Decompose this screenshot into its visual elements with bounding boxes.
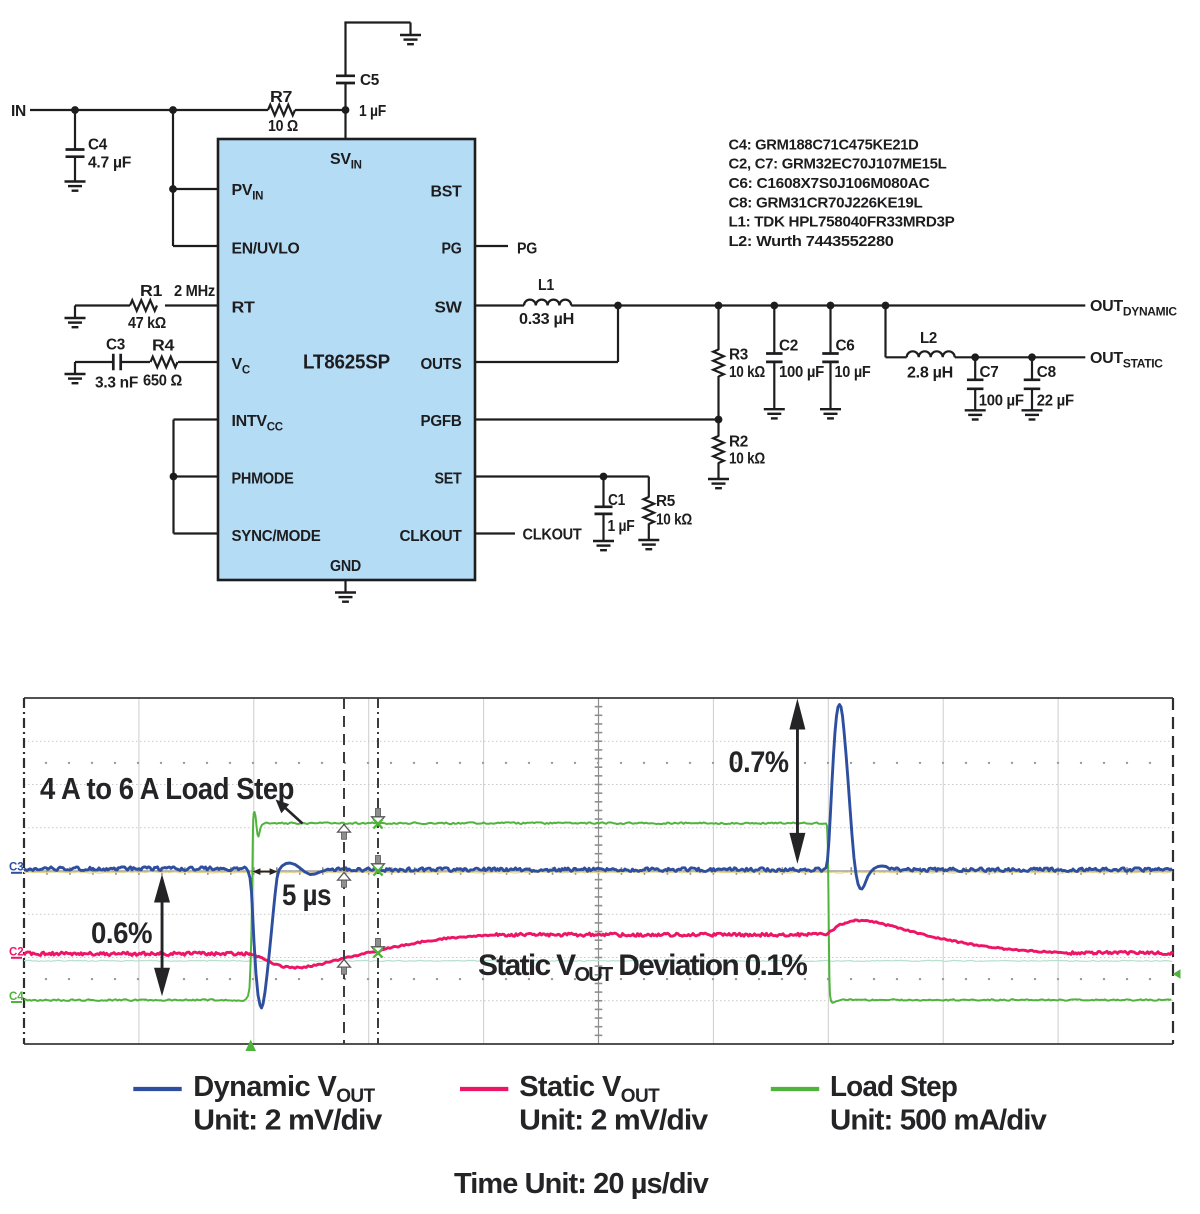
ground at C6 (820, 409, 841, 418)
pin PGFB (421, 413, 462, 430)
svg-text:R1: R1 (140, 283, 162, 300)
svg-text:EN/UVLO: EN/UVLO (232, 241, 300, 258)
wire OUT static rail (955, 356, 1086, 358)
svg-text:BST: BST (431, 184, 463, 201)
svg-text:OUTS: OUTS (421, 356, 463, 373)
wire L1 to OUT rail (571, 304, 1085, 306)
svg-text:PHMODE: PHMODE (232, 471, 295, 488)
inductor L2 (907, 330, 955, 382)
svg-text:PGFB: PGFB (421, 413, 462, 430)
scope minor dot rows (45, 762, 1151, 981)
svg-text:10 kΩ: 10 kΩ (729, 451, 765, 468)
svg-text:2.8 µH: 2.8 µH (907, 365, 953, 382)
svg-text:0.7%: 0.7% (729, 746, 789, 779)
svg-text:C4: C4 (88, 137, 107, 154)
scope grid verticals (139, 698, 1058, 1044)
pin SET (435, 471, 462, 488)
node IN label (11, 103, 26, 120)
svg-text:2 MHz: 2 MHz (174, 283, 215, 300)
svg-text:SET: SET (435, 471, 462, 488)
wire PGFB (475, 418, 719, 420)
svg-text:Unit: 2 mV/div: Unit: 2 mV/div (193, 1105, 382, 1137)
svg-text:100 µF: 100 µF (979, 393, 1024, 410)
ground above right of C5 (400, 35, 421, 44)
junction C7 tap (971, 353, 979, 361)
junction SVIN node (342, 103, 387, 120)
svg-text:RT: RT (232, 300, 256, 317)
junction C8 tap (1028, 353, 1036, 361)
svg-text:CLKOUT: CLKOUT (400, 528, 463, 545)
svg-text:R4: R4 (152, 338, 174, 355)
pin EN/UVLO (232, 241, 300, 258)
svg-text:650 Ω: 650 Ω (143, 373, 182, 390)
node PG label (517, 241, 537, 258)
junction R3 tap (715, 302, 723, 310)
pin INTVCC (232, 413, 283, 434)
svg-text:1 µF: 1 µF (608, 518, 635, 535)
scope center vertical axis (595, 698, 603, 1044)
svg-text:5 µs: 5 µs (282, 879, 331, 912)
ground below IC (335, 593, 356, 602)
capacitor C4 (66, 110, 132, 182)
cursor marker down green (372, 809, 385, 825)
svg-text:GND: GND (330, 558, 361, 575)
node OUTSTATIC label (1090, 350, 1163, 371)
svg-text:R7: R7 (270, 89, 292, 106)
ground at R1 (65, 306, 86, 328)
svg-text:10 Ω: 10 Ω (268, 118, 298, 135)
cursor marker down blue (372, 856, 385, 872)
node OUTDYNAMIC label (1090, 298, 1177, 319)
channel label C3 (9, 862, 24, 874)
svg-text:C4: GRM188C71C475KE21D: C4: GRM188C71C475KE21D (729, 136, 919, 153)
wire OUTS sense (475, 306, 618, 363)
ground at R5 (638, 540, 659, 549)
svg-text:PG: PG (442, 241, 462, 258)
pin RT (232, 300, 256, 317)
svg-text:10 kΩ: 10 kΩ (656, 512, 692, 529)
cursor dash-dot (377, 698, 379, 1044)
svg-text:C1: C1 (608, 492, 625, 509)
svg-text:1 µF: 1 µF (359, 103, 386, 120)
node CLKOUT label (523, 527, 582, 544)
svg-text:CLKOUT: CLKOUT (523, 527, 582, 544)
inductor L1 (519, 277, 574, 328)
pin BST (431, 184, 463, 201)
cursor marker up green (338, 825, 351, 840)
ground at C2 (764, 409, 785, 418)
ground at C1 (593, 541, 614, 550)
junction L2 branch (882, 302, 890, 310)
wire CLKOUT (475, 532, 515, 534)
junction at C4 tap (71, 106, 79, 114)
svg-text:Load Step: Load Step (830, 1071, 957, 1103)
capacitor C2 (766, 306, 824, 410)
svg-text:SW: SW (435, 300, 463, 317)
svg-text:C6: C6 (836, 338, 855, 355)
svg-text:Static VOUT Deviation 0.1%: Static VOUT Deviation 0.1% (478, 949, 807, 986)
svg-text:R2: R2 (729, 434, 748, 451)
wire SW to L1 (475, 304, 524, 306)
trace aux yellow (24, 872, 1172, 873)
trigger time marker (245, 1040, 256, 1052)
svg-text:L1: L1 (538, 277, 554, 294)
resistor R7 (268, 89, 298, 135)
junction SW/OUTS node (614, 302, 622, 310)
trace dynamic vout blue (24, 705, 1172, 1009)
trace load step green (24, 812, 1171, 1003)
resistor R3 (713, 306, 765, 420)
svg-text:C2: C2 (9, 947, 24, 959)
wire L2 branch (886, 306, 907, 358)
resistor R5 (644, 477, 693, 541)
capacitor C5 (336, 23, 379, 111)
svg-text:R3: R3 (729, 347, 748, 364)
svg-text:10 kΩ: 10 kΩ (729, 364, 765, 381)
svg-text:100 µF: 100 µF (779, 364, 824, 381)
svg-text:R5: R5 (656, 493, 675, 510)
svg-text:C2: C2 (779, 338, 798, 355)
wire IN rail (30, 109, 346, 111)
ground below C4 (65, 182, 86, 191)
trigger level marker (1173, 969, 1181, 978)
op-amp U1 LT8625SP IC body (218, 139, 475, 580)
capacitor C7 (967, 357, 1024, 410)
wire C5 to ground (344, 23, 410, 36)
svg-text:C3: C3 (9, 862, 24, 874)
svg-text:SYNC/MODE: SYNC/MODE (232, 528, 322, 545)
svg-text:C2, C7: GRM32EC70J107ME15L: C2, C7: GRM32EC70J107ME15L (729, 156, 947, 173)
svg-text:47 kΩ: 47 kΩ (128, 315, 166, 332)
junction PVIN (169, 185, 177, 193)
ground at R2 (708, 479, 729, 488)
pin PG (442, 241, 462, 258)
annotation 5us arrow (253, 868, 278, 875)
svg-text:L2: L2 (920, 330, 937, 347)
capacitor C8 (1024, 357, 1075, 410)
trace aux teal (24, 960, 1172, 961)
pin OUTS (421, 356, 463, 373)
svg-text:C8: C8 (1037, 364, 1056, 381)
cursor marker down pink (372, 939, 385, 955)
scope border (24, 698, 1173, 1044)
wire SVIN pin (344, 110, 346, 139)
wire PVIN branch (173, 110, 218, 246)
junction C6 tap (827, 302, 835, 310)
annotation 0.7% arrow (789, 699, 805, 864)
annotation load step arrow (276, 800, 303, 824)
cursor marker up blue (338, 873, 351, 888)
svg-text:3.3 nF: 3.3 nF (95, 375, 139, 392)
svg-text:L1: TDK HPL758040FR33MRD3P: L1: TDK HPL758040FR33MRD3P (729, 214, 955, 231)
svg-text:C3: C3 (106, 337, 125, 354)
capacitor C6 (822, 306, 871, 410)
ground at C3 (65, 362, 86, 383)
legend dynamic swatch (133, 1087, 181, 1091)
wire GND pin (344, 580, 346, 593)
capacitor C1 (595, 477, 635, 542)
channel label C4 (9, 991, 24, 1003)
cursor marker up pink (338, 960, 351, 975)
resistor R1 (75, 283, 218, 332)
trace static vout pink (24, 920, 1173, 968)
cursor dashed (343, 698, 345, 1044)
svg-text:C5: C5 (360, 72, 379, 89)
svg-text:10 µF: 10 µF (835, 364, 871, 381)
legend static swatch (460, 1087, 508, 1091)
resistor R2 (713, 420, 765, 480)
junction at PVIN tap (169, 106, 177, 114)
svg-text:4.7 µF: 4.7 µF (88, 155, 132, 172)
svg-text:C8: GRM31CR70J226KE19L: C8: GRM31CR70J226KE19L (729, 194, 923, 211)
scope center horizontal axis (24, 867, 1173, 875)
ground at C8 (1022, 410, 1043, 419)
svg-text:Unit: 2 mV/div: Unit: 2 mV/div (519, 1105, 708, 1137)
svg-text:0.6%: 0.6% (91, 917, 152, 950)
svg-text:4 A to 6 A Load Step: 4 A to 6 A Load Step (40, 771, 294, 806)
junction PHMODE (170, 473, 178, 481)
wire INTVCC/PHMODE/SYNC strap (174, 420, 219, 534)
svg-text:22 µF: 22 µF (1037, 393, 1074, 410)
svg-text:IN: IN (11, 103, 26, 120)
pin CLKOUT inside (400, 528, 463, 545)
wire PG output (475, 245, 508, 247)
pin VC (232, 356, 250, 377)
pin GND (330, 558, 361, 575)
junction C1 tap (600, 473, 608, 481)
parts list (729, 136, 955, 250)
svg-text:0.33 µH: 0.33 µH (519, 311, 574, 328)
scope grid horizontals (24, 741, 1173, 1001)
pin SW (435, 300, 463, 317)
capacitor C3 (75, 337, 139, 392)
svg-text:C7: C7 (980, 364, 999, 381)
junction C2 tap (770, 302, 778, 310)
pin PHMODE (232, 471, 295, 488)
annotation 0.6% arrow (154, 874, 170, 996)
wire SET (475, 475, 649, 477)
ground at C7 (965, 410, 986, 419)
channel label C2 (9, 947, 24, 959)
svg-text:LT8625SP: LT8625SP (303, 352, 390, 374)
legend loadstep swatch (771, 1087, 819, 1091)
svg-text:Unit: 500 mA/div: Unit: 500 mA/div (830, 1105, 1047, 1137)
svg-text:L2: Wurth 7443552280: L2: Wurth 7443552280 (729, 233, 894, 250)
pin SVIN (330, 151, 362, 172)
resistor R4 (121, 338, 218, 390)
junction PGFB node (715, 416, 723, 424)
pin SYNC/MODE (232, 528, 322, 545)
svg-text:Time Unit: 20 µs/div: Time Unit: 20 µs/div (454, 1168, 709, 1200)
svg-text:PG: PG (517, 241, 537, 258)
pin PVIN (232, 182, 264, 203)
svg-text:C6: C1608X7S0J106M080AC: C6: C1608X7S0J106M080AC (729, 175, 930, 192)
wire EN/UVLO stub (173, 245, 218, 247)
